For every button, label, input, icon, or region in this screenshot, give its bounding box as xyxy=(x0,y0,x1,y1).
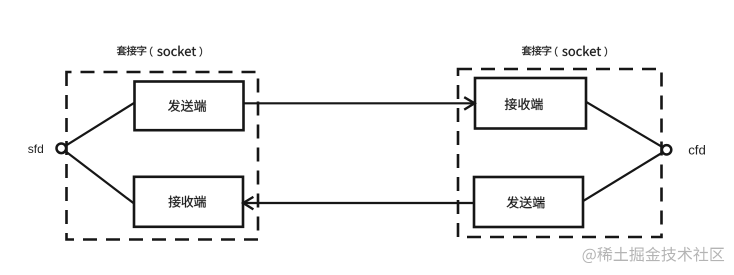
watermark @稀土掘金技术社区 xyxy=(583,247,724,263)
node cfd (circle) xyxy=(662,145,671,154)
left socket boundary (dashed box) xyxy=(67,72,259,240)
wire: top arrow shaft (left sender to right receiver) xyxy=(244,102,475,104)
wire: right sender box to cfd node xyxy=(584,150,667,201)
wire: right receiver box to cfd node xyxy=(586,102,667,150)
svg-text:cfd: cfd xyxy=(688,143,706,158)
right socket boundary (dashed box) xyxy=(458,69,662,237)
label: left receiver text 接收端 xyxy=(169,196,181,208)
left sender box 发送端 xyxy=(135,82,244,131)
right sender box 发送端 xyxy=(474,177,583,227)
svg-text:sfd: sfd xyxy=(28,142,44,156)
label: left sender text 发送端 xyxy=(168,100,180,112)
label: left title 套接字（socket） xyxy=(117,46,127,56)
label: right receiver text 接收端 xyxy=(505,98,517,110)
wire: sfd node to left receiver box xyxy=(62,148,135,203)
label: right title 套接字（socket） xyxy=(522,46,532,56)
arrowhead: top arrow pointing right xyxy=(464,97,474,109)
left receiver box 接收端 xyxy=(134,177,243,227)
label: right sender text 发送端 xyxy=(507,196,519,208)
node sfd (circle) xyxy=(57,144,67,154)
wire: bottom arrow shaft (right sender to left receiver) xyxy=(244,202,475,204)
arrowhead: bottom arrow pointing left xyxy=(243,197,253,210)
wire: sfd node to left sender box xyxy=(62,103,135,149)
right receiver box 接收端 xyxy=(475,78,586,129)
